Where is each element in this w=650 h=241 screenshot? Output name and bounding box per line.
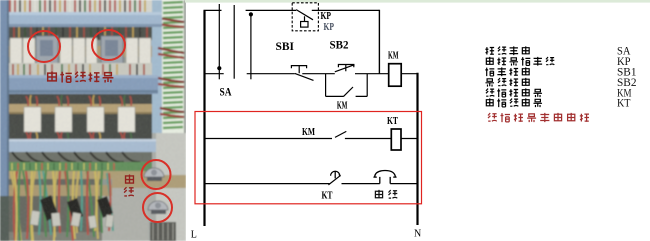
tan bell beam right (112, 175, 186, 188)
svg-text:KP: KP (324, 22, 335, 33)
pushbutton SB2 (start, NO) (335, 65, 355, 72)
relay 2 (circled) (101, 36, 123, 64)
DIN rail 1 (8, 46, 152, 57)
wire: top rung segment from L rail to SA (204, 9, 222, 11)
contactor group 1 (24, 107, 41, 132)
top wire strip (6, 0, 152, 13)
pressure switch KP contact blade (296, 10, 313, 22)
wire: rung 1 segment from SB1 to SB2 (302, 73, 335, 75)
red circle bell 2 (143, 193, 172, 222)
wire: rung 3 segment from L rail to KT contact (204, 183, 330, 185)
row 4: 启动按钮 SB2 (485, 78, 529, 87)
label dian-ling (bell, hanzi) (375, 190, 397, 198)
pushbutton SB1 (stop, NC) (291, 66, 313, 81)
red circle bell 1 (142, 160, 171, 189)
coil KM (contactor) (389, 64, 402, 86)
electric bell symbol (373, 171, 396, 184)
right wiring duct white/green (162, 0, 184, 133)
svg-text:KT: KT (617, 98, 631, 110)
wire: left rail L (vertical) (203, 10, 205, 226)
svg-text:KT: KT (322, 191, 333, 202)
switch SA pole line 3 (250, 13, 252, 79)
wire: rung 3 segment from KT contact to bell (342, 183, 380, 185)
left blue frame (0, 0, 9, 241)
wire: rung 1 segment from L rail to SA (204, 73, 224, 75)
white tags bottom (30, 211, 114, 229)
DIN rail 2 (8, 104, 152, 114)
wire: right rail N (vertical) (416, 73, 418, 225)
svg-text:KM: KM (302, 127, 315, 138)
bell 2 (148, 201, 168, 214)
right frame strip blue (150, 0, 164, 135)
bell 1 (144, 168, 164, 181)
contactor group 3 (87, 107, 104, 132)
node: junction dot on SA pole 1 (217, 66, 221, 70)
wire stubs below row1 (13, 64, 144, 75)
contact KT delay umbrella symbol (331, 171, 341, 178)
wire: top rung segment from SA to KP box (246, 9, 297, 11)
dark cable bundles bottom (40, 195, 113, 221)
right lower gray wall (148, 133, 186, 241)
tan beam lower-left (8, 185, 112, 196)
red annotation ellipse 2 (92, 30, 125, 60)
white terminal blocks row1 (10, 38, 151, 64)
svg-text:SBI: SBI (276, 39, 295, 53)
wire: rung 3 segment from bell to N rail (390, 183, 417, 185)
legend codes (617, 46, 637, 110)
blue beam 2 (4, 75, 158, 94)
wire: top rung segment from KP box to right corner (312, 9, 380, 11)
contactor group 2 (55, 107, 72, 132)
svg-text:KM: KM (337, 101, 348, 112)
wire: rung 1 segment from SA to SB1 (247, 73, 295, 75)
svg-text:KM: KM (388, 51, 399, 62)
svg-text:SA: SA (220, 85, 232, 99)
svg-text:KT: KT (387, 116, 398, 127)
row 1: 转换开关 SA (485, 46, 529, 55)
row 6: 时间继电器 KT (486, 98, 542, 107)
contactor group 4 (118, 107, 135, 132)
dark wire arcs zone (8, 152, 152, 162)
red vertical text 电铃 on photo (124, 174, 134, 196)
contact KT (delayed-close) blade (328, 176, 340, 185)
cabinet background (0, 0, 186, 241)
node: junction dot on SA pole 3 (249, 12, 253, 16)
blue beam 3 (lighter) (2, 139, 156, 152)
green terminal strip (8, 162, 152, 171)
lower wire zone background (6, 179, 102, 241)
wire: KM self-hold branch right drop (366, 74, 368, 97)
pressure switch KP dashed enclosure (292, 3, 318, 31)
colorful wire bundle arcs (11, 171, 113, 241)
switch SA pole line 1 (218, 4, 220, 79)
light band below row1 (8, 63, 152, 75)
coil KT (time relay) (391, 129, 401, 150)
row 3: 停止按钮 SB1 (485, 67, 529, 76)
switch SA pole line 2 (233, 5, 235, 79)
wire: rung 1 segment from SB2 to KM coil and N rail (355, 73, 418, 75)
pressure switch KP actuator box (301, 22, 308, 28)
row 5: 交流接触器 KM (486, 88, 542, 97)
red annotation ellipse 1 (28, 31, 60, 62)
contact KM auxiliary (self-hold, NO) (326, 87, 368, 97)
red text 时间继电器 on photo (48, 71, 114, 82)
wire: KM self-hold branch left drop (325, 74, 327, 97)
wire: right drop from top rung corner to rung 1 (378, 10, 380, 74)
blue beam 1 (4, 12, 162, 27)
dark interior behind row 2 (8, 94, 152, 139)
contact KM (NO, rung 2) (335, 131, 346, 137)
red wires over duct (158, 18, 184, 117)
wire: rung 2 segment from KM contact to KT coil and N rail (345, 138, 418, 140)
svg-text:KP: KP (321, 11, 332, 22)
svg-text:L: L (191, 229, 197, 240)
tan rail 3 (8, 171, 152, 179)
relay 1 (circled) (36, 36, 58, 64)
wire: rung 2 segment from L rail to KM contact (204, 138, 333, 140)
grille bottom right (150, 222, 176, 241)
svg-text:N: N (414, 228, 421, 239)
red box marking new circuit (195, 112, 422, 204)
wire tufts above/below contactors (26, 95, 131, 140)
red note: 红线部分为新增电路 (488, 113, 589, 122)
green top strip (185, 0, 650, 3)
svg-text:SB2: SB2 (330, 38, 349, 52)
dark wires above terminal row 1 (8, 27, 152, 40)
row 2: 电接点压力表 KP (486, 57, 554, 66)
hanging wires below beam2 (8, 94, 152, 105)
